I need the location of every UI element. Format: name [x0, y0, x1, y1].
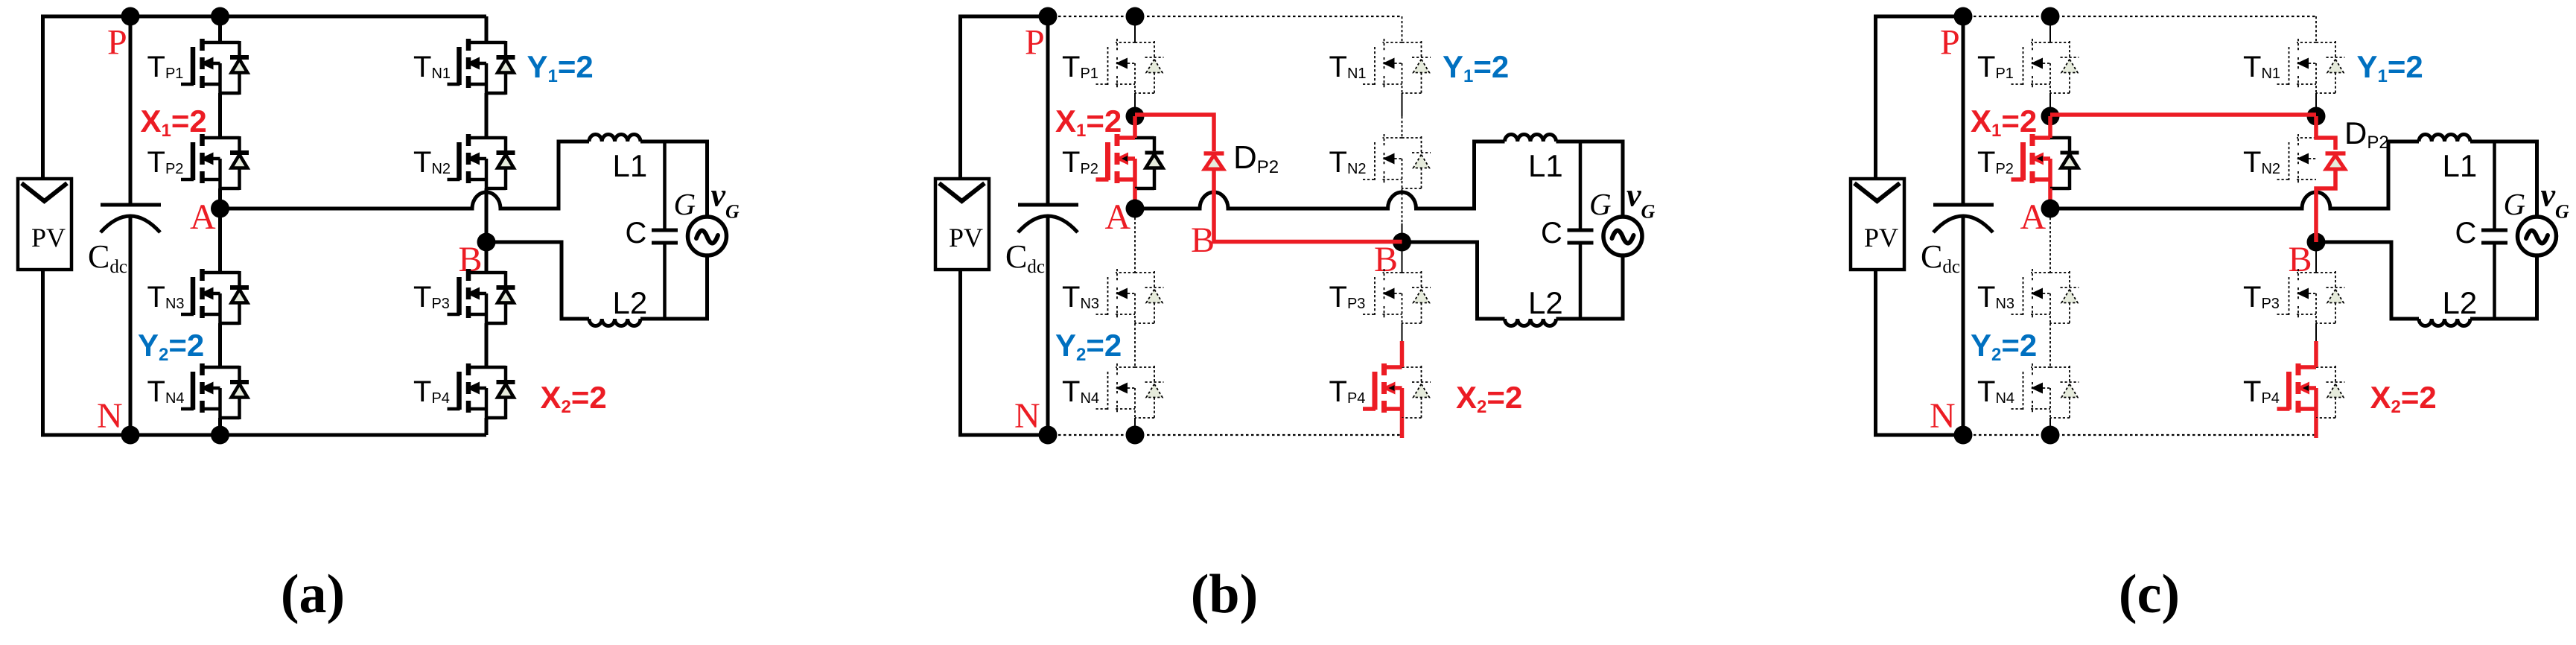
body diode of TN3 — [1135, 271, 1164, 325]
svg-text:G: G — [1589, 187, 1612, 221]
body diode of TP3 — [486, 271, 515, 325]
red wire X1 node to TP2 drain — [2048, 116, 2052, 138]
node A — [211, 200, 229, 218]
transistor TN3 — [1096, 269, 1136, 323]
wire right leg TN1 to X node — [2315, 93, 2317, 116]
AC source vG — [688, 217, 727, 255]
svg-text:B: B — [1191, 220, 1215, 260]
svg-text:L2: L2 — [1528, 285, 1563, 320]
svg-text:Y2=2: Y2=2 — [1055, 328, 1122, 365]
dashed right leg top segment — [2315, 16, 2317, 42]
node P — [1954, 7, 1973, 26]
red wire DP2 to node B — [2316, 169, 2335, 242]
svg-text:G: G — [2504, 187, 2526, 221]
body diode of TP3 — [2316, 271, 2345, 325]
transistor TP4 — [2277, 363, 2317, 418]
wire PV to bottom rail — [43, 270, 131, 435]
wire left leg segments — [218, 16, 222, 435]
wire top rail P to right leg — [130, 15, 486, 19]
node N — [1039, 426, 1058, 445]
transistor TP4 — [448, 363, 487, 418]
svg-text:X1=2: X1=2 — [1055, 104, 1122, 141]
PV panel symbol PV — [1851, 179, 1904, 270]
transistor TP3 — [2277, 269, 2317, 323]
body diode of TP1 — [2050, 41, 2079, 95]
capacitor Cdc — [101, 205, 161, 232]
svg-text:Y1=2: Y1=2 — [2357, 49, 2423, 86]
svg-text:X1=2: X1=2 — [141, 104, 207, 141]
wire L1 to source — [1556, 142, 1623, 217]
wire node A to filter with crossover hop — [2050, 142, 2419, 209]
AC source vG — [2518, 217, 2557, 255]
wire L1 to source — [640, 142, 707, 217]
node B — [1393, 233, 1411, 252]
inductor L1 — [2419, 135, 2470, 142]
wire L2 to source — [1556, 255, 1623, 319]
svg-text:N: N — [1014, 396, 1040, 436]
svg-text:P: P — [1940, 23, 1960, 63]
PV panel symbol PV — [935, 179, 989, 270]
red wire above TP4 — [2314, 341, 2318, 367]
diode DP2 — [1204, 153, 1224, 169]
inductor L2 — [589, 319, 640, 326]
transistor TN4 — [1096, 363, 1136, 418]
transistor TN1 — [1363, 39, 1402, 93]
body diode of TN3 — [2050, 271, 2079, 325]
svg-text:Y1=2: Y1=2 — [527, 49, 594, 86]
svg-text:P: P — [107, 23, 127, 63]
capacitor C — [652, 142, 678, 319]
red wire TP4 source to bottom rail — [2314, 418, 2318, 438]
node top of left leg — [2041, 7, 2060, 26]
node A — [2041, 200, 2060, 218]
AC source vG — [1603, 217, 1642, 255]
wire left leg top segment — [1134, 16, 1136, 42]
wire bus upper — [1962, 16, 1965, 205]
node N — [1954, 426, 1973, 445]
svg-text:C: C — [1541, 217, 1562, 250]
node P — [121, 7, 140, 26]
wire right leg TN1 to TN2 — [1402, 93, 1403, 116]
node B — [477, 233, 496, 252]
dashed left leg lower segments — [1134, 209, 1136, 435]
transistor TP1 — [2011, 39, 2051, 93]
transistor TP2 — [1096, 134, 1136, 188]
svg-text:PV: PV — [1864, 223, 1898, 252]
node X1 right leg — [2307, 107, 2326, 126]
svg-text:L2: L2 — [613, 285, 648, 320]
transistor TN3 — [181, 269, 220, 323]
transistor TN2 — [2277, 134, 2317, 183]
body diode of TP2 — [220, 136, 249, 190]
wire node A to filter with crossover hop — [1135, 142, 1505, 209]
body diode of TN4 — [2050, 366, 2079, 419]
capacitor C — [2481, 142, 2507, 319]
wire bus lower — [1962, 217, 1965, 435]
transistor TN2 — [448, 134, 487, 188]
body diode of TN3 — [220, 271, 249, 325]
red wire TP2 source to node A — [1133, 188, 1137, 212]
wire left leg segment to X1 node — [2049, 93, 2051, 116]
wire right leg node B to TP3 — [2315, 242, 2317, 273]
node X1 — [1126, 107, 1145, 126]
svg-text:Y1=2: Y1=2 — [1443, 49, 1509, 86]
dashed top rail — [1048, 16, 1402, 17]
node bottom of left leg — [1126, 426, 1145, 445]
svg-text:X2=2: X2=2 — [2370, 380, 2437, 417]
wire PV to bottom rail — [1876, 270, 1964, 435]
body diode of TN4 — [1135, 366, 1164, 419]
svg-text:A: A — [1105, 197, 1131, 237]
body diode of TP4 — [2316, 366, 2345, 419]
red wire TP4 source to bottom rail — [1400, 418, 1405, 438]
node P — [1039, 7, 1058, 26]
svg-text:A: A — [2020, 197, 2047, 237]
transistor TP1 — [1096, 39, 1136, 93]
transistor TN1 — [448, 39, 487, 93]
node top of left leg — [211, 7, 229, 26]
wire right leg TP3 to red segment — [2315, 323, 2317, 341]
node bottom of left leg — [2041, 426, 2060, 445]
inductor L2 — [1505, 319, 1556, 326]
inductor L2 — [2419, 319, 2470, 326]
wire right leg node B to TP3 — [1402, 242, 1403, 273]
PV panel symbol PV — [18, 179, 71, 270]
node B — [2307, 233, 2326, 252]
red wire X1 node to diode DP2 — [1135, 115, 1214, 151]
svg-text:L1: L1 — [1528, 148, 1563, 183]
transistor TP3 — [1363, 269, 1402, 323]
svg-text:Y2=2: Y2=2 — [138, 328, 204, 365]
red wire TP2 source to node A — [2048, 188, 2052, 212]
transistor TP2 — [181, 134, 220, 188]
transistor TP1 — [181, 39, 220, 93]
wire right leg TP3 to red segment — [1402, 323, 1403, 341]
transistor TN4 — [181, 363, 220, 418]
svg-text:N: N — [97, 396, 123, 436]
transistor TP4 — [1363, 363, 1402, 418]
svg-text:L2: L2 — [2443, 285, 2478, 320]
capacitor Cdc — [1018, 205, 1078, 232]
wire node B to L2 — [1402, 242, 1505, 319]
wire PV to top rail — [43, 16, 131, 179]
wire node B to L2 — [2316, 242, 2419, 319]
node N — [121, 426, 140, 445]
svg-text:L1: L1 — [2443, 148, 2478, 183]
transistor TP2 — [2011, 134, 2051, 188]
body diode of TP2 (black) — [2050, 136, 2079, 190]
svg-text:P: P — [1025, 23, 1045, 63]
body diode of TN1 — [2316, 41, 2345, 95]
wire bus lower — [1046, 217, 1050, 435]
svg-text:Y2=2: Y2=2 — [1971, 328, 2037, 365]
wire bus upper — [129, 16, 133, 205]
node bottom of left leg — [211, 426, 229, 445]
svg-text:N: N — [1930, 396, 1956, 436]
svg-text:X2=2: X2=2 — [1456, 380, 1522, 417]
body diode of TP1 — [220, 41, 249, 95]
body diode of TP4 — [1402, 366, 1431, 419]
svg-text:X2=2: X2=2 — [541, 380, 607, 417]
red wire X1 node to TP2 drain — [1133, 116, 1137, 138]
node A — [1126, 200, 1145, 218]
svg-text:B: B — [1374, 240, 1398, 279]
wire node A to filter with crossover hop — [220, 142, 590, 209]
dashed bottom rail — [1963, 434, 2316, 436]
diode DP2 — [2326, 153, 2346, 169]
body diode of TN1 — [486, 41, 515, 95]
capacitor Cdc — [1933, 205, 1994, 232]
capacitor C — [1568, 142, 1594, 319]
transistor TN2 — [1363, 134, 1402, 188]
svg-text:X1=2: X1=2 — [1971, 104, 2037, 141]
inductor L1 — [589, 135, 640, 142]
red wire DP2 to node B — [1214, 169, 1402, 242]
body diode of TN2 — [486, 136, 515, 190]
dashed right leg top segment — [1402, 16, 1403, 42]
wire L2 to source — [640, 255, 707, 319]
wire right leg segments — [485, 16, 489, 435]
svg-text:PV: PV — [949, 223, 983, 252]
body diode of TP4 — [486, 366, 515, 419]
svg-text:(b): (b) — [1191, 564, 1258, 625]
red wire above TP4 — [1400, 341, 1405, 367]
svg-text:C: C — [626, 217, 647, 250]
body diode of TN4 — [220, 366, 249, 419]
wire bus upper — [1046, 16, 1050, 205]
svg-text:B: B — [2289, 240, 2312, 279]
transistor TN1 — [2277, 39, 2317, 93]
body diode of TP1 — [1135, 41, 1164, 95]
wire L2 to source — [2470, 255, 2537, 319]
svg-text:G: G — [674, 187, 696, 221]
wire bus lower — [129, 217, 133, 435]
wire right leg TN2 to node B — [1402, 188, 1403, 223]
red wire X1 node to right leg node — [2050, 112, 2316, 117]
dashed left leg lower segments — [2049, 209, 2051, 435]
svg-text:PV: PV — [31, 223, 66, 252]
transistor TN4 — [2011, 363, 2051, 418]
svg-text:(c): (c) — [2119, 564, 2180, 625]
svg-text:A: A — [190, 197, 216, 237]
inductor L1 — [1505, 135, 1556, 142]
dashed bottom rail — [1048, 434, 1402, 436]
body diode of TP2 (black) — [1135, 136, 1164, 190]
svg-text:L1: L1 — [613, 148, 648, 183]
transistor TP3 — [448, 269, 487, 323]
body diode of TN1 — [1402, 41, 1431, 95]
wire node B to L2 — [486, 242, 589, 319]
wire left leg segment to X1 node — [1134, 93, 1136, 116]
wire bottom rail N to right leg — [130, 433, 486, 437]
transistor TN3 — [2011, 269, 2051, 323]
wire PV to top rail — [961, 16, 1049, 179]
wire L1 to source — [2470, 142, 2537, 217]
wire left leg top segment — [2049, 16, 2051, 42]
body diode of TN2 — [1402, 136, 1431, 190]
wire PV to top rail — [1876, 16, 1964, 179]
red wire right node to diode DP2 — [2316, 116, 2335, 150]
node top of left leg — [1126, 7, 1145, 26]
body diode of TP3 — [1402, 271, 1431, 325]
dashed top rail — [1963, 16, 2316, 17]
node X1 — [2041, 107, 2060, 126]
svg-text:(a): (a) — [281, 564, 345, 625]
svg-text:C: C — [2455, 217, 2477, 250]
wire PV to bottom rail — [961, 270, 1049, 435]
